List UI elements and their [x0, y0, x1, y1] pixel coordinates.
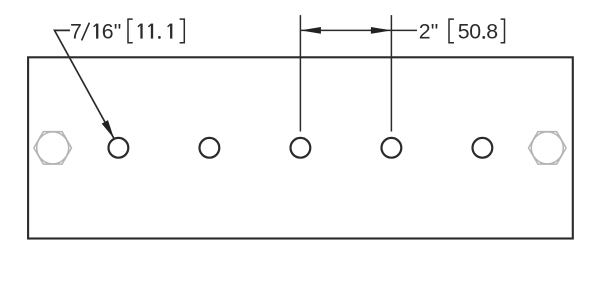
hole 4: [382, 138, 402, 158]
svg-text:76": 76": [70, 20, 121, 44]
arrowhead right: [371, 27, 392, 34]
hole 2: [200, 138, 220, 158]
arrowhead left: [300, 27, 321, 34]
hole 3: [291, 138, 311, 158]
digit 1 a: [138, 24, 142, 39]
digit 1 b: [148, 24, 152, 39]
extension line hole 4: [390, 15, 392, 131]
label 7/16" digit one: [94, 24, 98, 39]
bracket ] of 11.1: [180, 19, 185, 43]
hole 5: [473, 138, 493, 158]
bracket [ of 50.8: [449, 19, 454, 43]
leader 7/16 horizontal: [55, 30, 115, 138]
hex nut right: [529, 132, 567, 165]
hex nut left: [34, 132, 72, 165]
svg-text:2"508: 2"508: [419, 20, 498, 44]
digit 1 c: [168, 24, 172, 39]
decimal point of 50.8: [482, 36, 485, 39]
plate outline: [28, 57, 573, 238]
extension line hole 3: [299, 15, 301, 131]
bracket ] of 50.8: [501, 19, 505, 43]
bracket [ of 11.1: [128, 19, 133, 43]
hole 1: [109, 138, 129, 158]
leader arrowhead: [102, 120, 114, 138]
decimal point of 11.1: [158, 36, 161, 39]
dimension line 2in: [300, 29, 417, 31]
label 7/16" slash: [82, 23, 90, 41]
